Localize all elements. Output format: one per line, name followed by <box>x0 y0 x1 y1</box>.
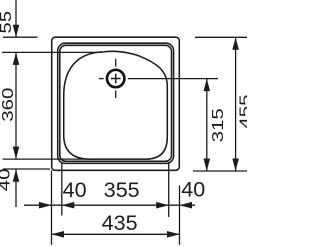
svg-text:435: 435 <box>102 211 138 235</box>
dim line 455 <box>235 37 237 171</box>
drain ring <box>107 70 124 87</box>
svg-text:40: 40 <box>63 178 87 202</box>
ext line below sink left edge <box>51 170 53 245</box>
bottom dim line row2 435 <box>52 233 180 235</box>
arrow down tip bottom (455 dim) <box>232 159 239 172</box>
arrow left tip bowl left ext (355 dim) <box>62 202 75 209</box>
sink rim outer line <box>58 43 174 163</box>
arrow right tip sink left ext (40 bottom outside) <box>39 202 52 209</box>
ext line sink top right <box>195 36 247 38</box>
ext line sink bottom left <box>3 168 50 170</box>
left dim line 40 tail segment <box>15 169 17 207</box>
arrow left tip row2 (435 dim) <box>52 231 65 238</box>
svg-text:455: 455 <box>236 94 247 128</box>
sink outer rect <box>52 37 180 170</box>
arrow right tip bowl right ext (355 dim) <box>156 202 169 209</box>
arrow down tip bottom (315 dim) <box>204 159 211 172</box>
arrow up tip drain line (315 dim) <box>204 79 211 92</box>
bowl outline <box>64 51 168 159</box>
drain tick left <box>99 78 104 80</box>
left dim line 55 segment <box>15 0 17 37</box>
arrow up tip bowl top (360 dim) <box>13 52 20 65</box>
ext line below bowl left edge <box>61 163 63 216</box>
drain cross horizontal <box>111 78 121 80</box>
svg-text:40: 40 <box>181 177 205 201</box>
left dim line 360 segment <box>15 52 17 159</box>
svg-text:355: 355 <box>104 178 140 202</box>
svg-text:315: 315 <box>208 108 226 142</box>
ext line bowl bottom left <box>3 158 151 160</box>
sink rim inner line <box>60 45 172 161</box>
ext line below sink right edge <box>179 186 181 245</box>
ext line sink top left <box>3 36 38 38</box>
ext line sink bottom right <box>193 170 247 172</box>
arrow left tip sink right ext (40 bottom outside) <box>180 202 193 209</box>
arrow down tip sink top (55 dim) <box>13 25 20 38</box>
arrow up tip sink bottom (40 dim) <box>13 169 20 182</box>
arrow up tip top (455 dim) <box>232 37 239 50</box>
drain tick bottom <box>115 90 117 98</box>
dim line 315 <box>206 79 208 171</box>
bottom dim line row1 40/355/40 <box>24 204 195 206</box>
drain leader line to 315 dimension <box>128 78 218 80</box>
svg-text:55: 55 <box>0 11 15 34</box>
svg-text:40: 40 <box>0 168 13 191</box>
arrow down tip bowl bottom (360 dim) <box>13 147 20 160</box>
svg-text:360: 360 <box>0 88 16 122</box>
arrow right tip row2 (435 dim) <box>167 231 180 238</box>
drain cross vertical <box>115 74 117 84</box>
drain tick top <box>115 59 117 67</box>
ext line bowl top left <box>2 51 102 53</box>
ext line below bowl right edge <box>168 162 170 217</box>
